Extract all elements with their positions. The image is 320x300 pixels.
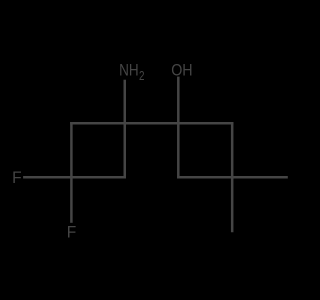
svg-text:OH: OH — [171, 62, 192, 80]
svg-text:NH: NH — [119, 61, 139, 80]
bond: C1 to NH2 — [124, 80, 127, 124]
bond: C3 to F2 — [70, 177, 73, 223]
bond: F1 to C3 + left ring bottom edge (C3-C4) — [23, 176, 126, 179]
bond: left ring left edge (C2-C3) — [70, 122, 73, 178]
bond: top horizontal (both ring top edges + connecting C1-C1' bond) — [70, 122, 233, 125]
svg-text:F: F — [67, 223, 77, 242]
bond: right ring right edge + methyl bond — [231, 122, 234, 232]
svg-text:F: F — [12, 168, 22, 187]
bond: right ring bottom edge + methyl bond — [177, 176, 288, 179]
bond: right ring left edge + C1' to OH — [177, 77, 180, 179]
bond: left ring right edge (C4-C1) — [124, 122, 127, 178]
svg-text:2: 2 — [139, 70, 144, 83]
